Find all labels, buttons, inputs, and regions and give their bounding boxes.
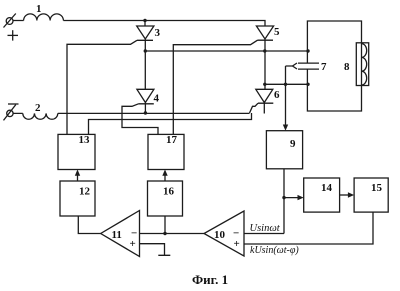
svg-text:8: 8 bbox=[344, 61, 350, 73]
svg-text:Usinωt: Usinωt bbox=[250, 223, 281, 234]
svg-text:5: 5 bbox=[274, 26, 280, 38]
svg-text:12: 12 bbox=[79, 186, 91, 198]
svg-text:+: + bbox=[130, 238, 136, 250]
svg-text:9: 9 bbox=[290, 138, 296, 150]
svg-text:10: 10 bbox=[214, 229, 226, 241]
svg-text:1: 1 bbox=[36, 3, 42, 15]
svg-text:3: 3 bbox=[155, 27, 161, 39]
svg-text:17: 17 bbox=[166, 134, 178, 146]
svg-text:kUsin(ωt-φ): kUsin(ωt-φ) bbox=[250, 245, 299, 256]
svg-text:+: + bbox=[234, 238, 240, 250]
svg-text:15: 15 bbox=[371, 182, 383, 194]
svg-text:2: 2 bbox=[35, 102, 41, 114]
svg-text:6: 6 bbox=[274, 89, 280, 101]
svg-text:7: 7 bbox=[321, 61, 327, 73]
svg-text:Фиг. 1: Фиг. 1 bbox=[192, 272, 228, 287]
svg-text:4: 4 bbox=[154, 93, 160, 105]
svg-text:14: 14 bbox=[321, 182, 333, 194]
svg-text:13: 13 bbox=[79, 134, 91, 146]
svg-text:16: 16 bbox=[163, 186, 175, 198]
svg-text:11: 11 bbox=[112, 229, 122, 241]
